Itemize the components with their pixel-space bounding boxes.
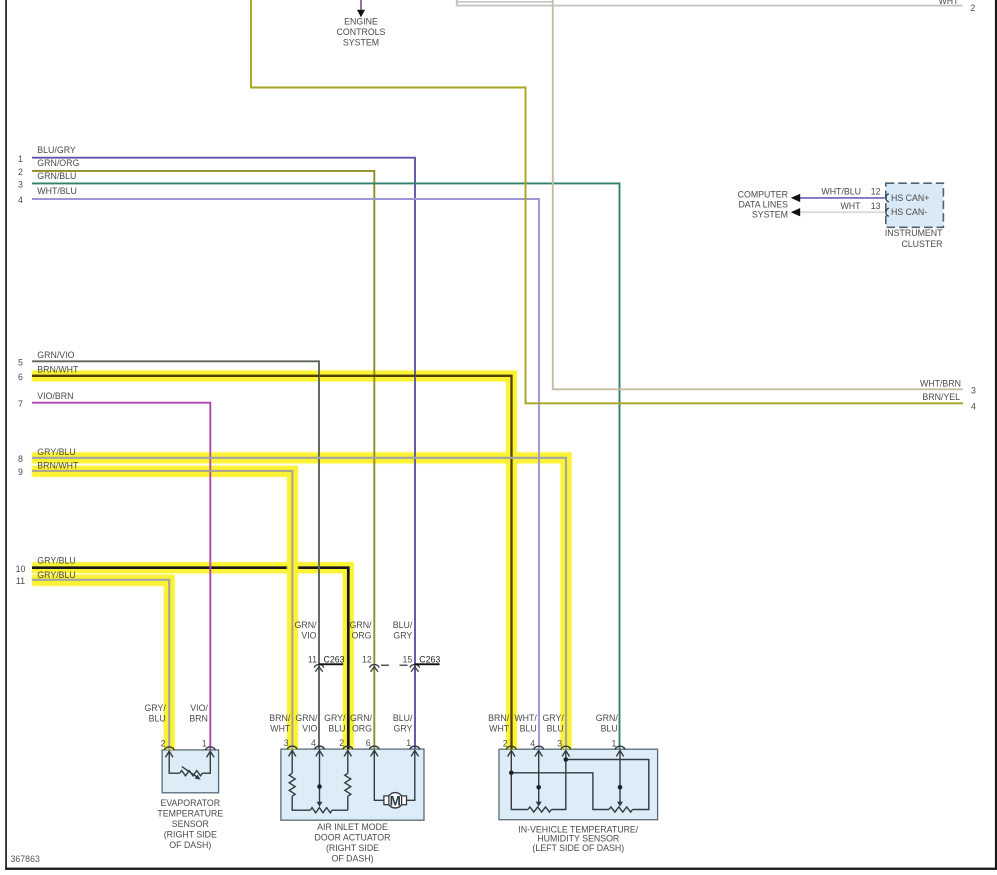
- svg-text:BRN/: BRN/: [269, 713, 291, 723]
- svg-text:OF DASH): OF DASH): [169, 840, 211, 850]
- svg-text:GRY/BLU: GRY/BLU: [37, 556, 75, 566]
- svg-text:GRY/: GRY/: [542, 713, 564, 723]
- svg-text:ORG: ORG: [351, 630, 371, 640]
- svg-text:2: 2: [503, 738, 508, 748]
- svg-text:8: 8: [18, 454, 23, 464]
- svg-text:BLU: BLU: [149, 714, 166, 724]
- svg-text:3: 3: [557, 738, 562, 748]
- svg-text:BLU: BLU: [328, 724, 345, 734]
- svg-text:4: 4: [971, 402, 976, 412]
- svg-text:9: 9: [18, 467, 23, 477]
- svg-text:11: 11: [308, 655, 317, 665]
- svg-text:ORG: ORG: [352, 724, 372, 734]
- svg-text:VIO: VIO: [302, 724, 317, 734]
- svg-text:TEMPERATURE: TEMPERATURE: [157, 809, 223, 819]
- svg-text:3: 3: [18, 180, 23, 190]
- svg-text:11: 11: [16, 576, 25, 586]
- svg-text:2: 2: [339, 738, 344, 748]
- svg-text:2: 2: [970, 3, 975, 13]
- svg-text:2: 2: [18, 167, 23, 177]
- svg-text:C263: C263: [324, 655, 345, 665]
- svg-text:1: 1: [611, 738, 616, 748]
- svg-text:DOOR ACTUATOR: DOOR ACTUATOR: [315, 833, 391, 843]
- svg-text:HS CAN+: HS CAN+: [891, 193, 929, 203]
- svg-text:WHT: WHT: [840, 201, 861, 211]
- svg-text:SENSOR: SENSOR: [172, 819, 209, 829]
- svg-text:EVAPORATOR: EVAPORATOR: [160, 798, 220, 808]
- svg-text:GRY/: GRY/: [324, 713, 346, 723]
- svg-text:BRN/: BRN/: [488, 713, 510, 723]
- svg-text:BLU: BLU: [601, 724, 618, 734]
- svg-text:367863: 367863: [11, 854, 40, 864]
- svg-text:3: 3: [284, 738, 289, 748]
- svg-text:WHT/BLU: WHT/BLU: [37, 186, 77, 196]
- svg-text:WHT/BRN: WHT/BRN: [920, 378, 961, 388]
- svg-text:GRY/BLU: GRY/BLU: [37, 447, 75, 457]
- svg-text:GRY: GRY: [393, 630, 412, 640]
- svg-text:BLU: BLU: [547, 724, 564, 734]
- svg-text:GRY/: GRY/: [144, 703, 166, 713]
- svg-text:BLU/GRY: BLU/GRY: [37, 145, 76, 155]
- svg-text:BLU/: BLU/: [393, 713, 413, 723]
- svg-text:(RIGHT SIDE: (RIGHT SIDE: [164, 830, 217, 840]
- svg-text:DATA LINES: DATA LINES: [738, 200, 788, 210]
- svg-text:GRY: GRY: [393, 724, 412, 734]
- svg-text:12: 12: [871, 187, 881, 197]
- svg-text:(LEFT SIDE OF DASH): (LEFT SIDE OF DASH): [532, 843, 624, 853]
- svg-text:1: 1: [18, 154, 23, 164]
- svg-text:(RIGHT SIDE: (RIGHT SIDE: [326, 843, 379, 853]
- svg-text:C263: C263: [419, 655, 440, 665]
- svg-text:BRN/WHT: BRN/WHT: [37, 460, 79, 470]
- svg-text:BLU/: BLU/: [393, 620, 413, 630]
- svg-text:BRN/YEL: BRN/YEL: [922, 392, 960, 402]
- svg-text:GRN/ORG: GRN/ORG: [37, 158, 79, 168]
- svg-text:WHT: WHT: [489, 724, 510, 734]
- svg-text:6: 6: [366, 738, 371, 748]
- svg-text:15: 15: [403, 655, 413, 665]
- svg-text:GRN/VIO: GRN/VIO: [37, 350, 74, 360]
- svg-text:WHT/BLU: WHT/BLU: [821, 187, 861, 197]
- svg-text:GRN/: GRN/: [295, 713, 318, 723]
- svg-text:SYSTEM: SYSTEM: [752, 209, 788, 219]
- svg-text:GRN/: GRN/: [350, 620, 373, 630]
- svg-text:VIO: VIO: [301, 630, 316, 640]
- svg-text:GRN/: GRN/: [596, 713, 619, 723]
- svg-text:WHT: WHT: [270, 724, 291, 734]
- svg-text:4: 4: [530, 738, 535, 748]
- svg-text:AIR INLET MODE: AIR INLET MODE: [317, 822, 388, 832]
- svg-text:M: M: [390, 793, 401, 808]
- svg-text:GRY/BLU: GRY/BLU: [37, 570, 75, 580]
- svg-text:COMPUTER: COMPUTER: [738, 190, 788, 200]
- svg-text:SYSTEM: SYSTEM: [343, 37, 379, 47]
- svg-text:CLUSTER: CLUSTER: [901, 239, 942, 249]
- svg-text:BLU: BLU: [520, 724, 537, 734]
- svg-text:VIO/: VIO/: [190, 703, 208, 713]
- svg-text:3: 3: [971, 385, 976, 395]
- svg-text:GRN/: GRN/: [295, 620, 318, 630]
- svg-text:2: 2: [161, 739, 166, 749]
- svg-text:CONTROLS: CONTROLS: [337, 27, 386, 37]
- svg-text:6: 6: [18, 372, 23, 382]
- svg-text:13: 13: [871, 201, 881, 211]
- svg-text:5: 5: [18, 358, 23, 368]
- svg-text:BRN: BRN: [189, 714, 208, 724]
- svg-text:OF DASH): OF DASH): [331, 854, 373, 864]
- svg-text:WHT: WHT: [938, 0, 959, 6]
- svg-text:GRN/BLU: GRN/BLU: [37, 171, 76, 181]
- svg-text:1: 1: [406, 738, 411, 748]
- svg-text:12: 12: [362, 655, 372, 665]
- svg-text:4: 4: [18, 195, 23, 205]
- svg-text:BRN/WHT: BRN/WHT: [37, 365, 79, 375]
- svg-text:7: 7: [18, 399, 23, 409]
- svg-text:GRN/: GRN/: [350, 713, 373, 723]
- svg-text:INSTRUMENT: INSTRUMENT: [885, 228, 943, 238]
- svg-text:WHT/: WHT/: [514, 713, 537, 723]
- svg-text:HS CAN-: HS CAN-: [891, 207, 927, 217]
- svg-text:4: 4: [311, 738, 316, 748]
- svg-text:ENGINE: ENGINE: [344, 17, 378, 27]
- svg-text:10: 10: [16, 564, 26, 574]
- svg-text:1: 1: [202, 739, 207, 749]
- svg-text:VIO/BRN: VIO/BRN: [37, 391, 73, 401]
